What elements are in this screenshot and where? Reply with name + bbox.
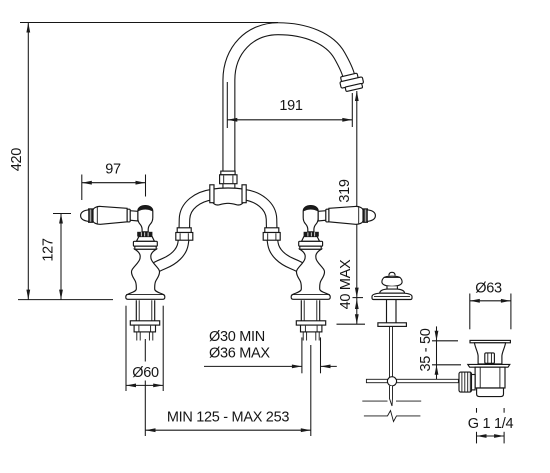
break line 2 with zigzag bbox=[364, 411, 421, 422]
dimension min-max left extension line lower bbox=[144, 381, 146, 437]
dimension 97 line bbox=[82, 182, 146, 184]
left pillar group bbox=[81, 205, 165, 340]
dimension 191 left extension line bbox=[226, 82, 228, 128]
dimension 127 bottom arrowhead bbox=[59, 290, 63, 300]
left bridge arm outer stroke bbox=[156, 195, 213, 268]
pop-up stem bbox=[387, 300, 397, 323]
dimension min-max left arrowhead bbox=[146, 428, 156, 432]
pillar skirt bbox=[137, 237, 155, 242]
central hub left rib bbox=[210, 185, 214, 203]
below-deck shank outer lines bbox=[136, 300, 154, 321]
dimension 420 top arrowhead bbox=[26, 23, 30, 33]
spout tube outer stroke bbox=[229, 29, 349, 189]
tailpiece lines bbox=[137, 332, 153, 341]
dimension diam30/36 right arrowhead pointing right bbox=[292, 365, 302, 369]
below-deck shank inner lines bbox=[139, 300, 152, 321]
pop-up skirt line bbox=[374, 295, 410, 297]
waste body inner wall lines bbox=[480, 367, 500, 388]
dimension diam63 right arrowhead bbox=[501, 299, 511, 303]
dimension 127 top arrowhead bbox=[59, 214, 63, 224]
dimension 40 MAX lower arrowhead bbox=[355, 314, 359, 324]
dimension 191 right arrowhead bbox=[342, 118, 352, 122]
dimension 97 right extension line bbox=[145, 175, 147, 197]
dimension 420 top reference line bbox=[20, 22, 278, 24]
right bridge arm inner white bbox=[244, 195, 301, 268]
dimension 191 right extension line bbox=[351, 93, 353, 127]
dimension diam30/36 leader line left part bbox=[204, 365, 302, 367]
right pillar (mirrored) bbox=[291, 205, 375, 340]
svg-text:G 1 1/4: G 1 1/4 bbox=[468, 416, 514, 432]
handle ribbed collar bbox=[89, 209, 93, 222]
dimension 40 MAX bottom reference line bbox=[337, 323, 366, 325]
pillar bonnet band bbox=[133, 241, 157, 246]
svg-text:40 MAX: 40 MAX bbox=[338, 259, 354, 309]
pillar vase body bbox=[126, 249, 165, 299]
handle grip butt line bbox=[96, 207, 98, 225]
waste body bbox=[475, 367, 505, 388]
dimension min-max line bbox=[146, 429, 311, 431]
waste bottom cap bbox=[477, 388, 504, 397]
spout tube inner white bbox=[229, 29, 349, 189]
waste top rim bbox=[470, 340, 510, 342]
dimension diam30/36 left-pointing arrowhead bbox=[321, 365, 331, 369]
handle rib lines bbox=[90, 209, 91, 222]
pillar knurled ring bbox=[137, 232, 152, 237]
rod lower tip bbox=[390, 386, 393, 406]
aerator outlet bands bbox=[339, 72, 365, 92]
dimension min-max left extension line upper bbox=[144, 339, 146, 362]
left union nut facets bbox=[180, 233, 188, 240]
waste sink band bbox=[468, 364, 510, 367]
handle stem bbox=[130, 211, 138, 221]
knurl highlights bbox=[141, 232, 148, 236]
central hub body bbox=[212, 188, 245, 205]
pop-up knob tip bbox=[389, 272, 395, 275]
dimension min-max right extension line bbox=[310, 345, 312, 436]
dimension 319 top arrowhead bbox=[355, 91, 359, 101]
dimension diam60 right extension line bbox=[162, 306, 164, 391]
spout base nut bbox=[220, 175, 237, 184]
dimension diam60 left extension line bbox=[125, 306, 127, 391]
right union nut collar bbox=[265, 228, 279, 233]
left union nut collar bbox=[177, 228, 191, 233]
waste nut collar bbox=[472, 375, 476, 390]
dimension diam63 right extension line bbox=[510, 294, 512, 330]
lever ball pivot bbox=[387, 377, 396, 386]
dimension diam30/36 right tail bbox=[321, 365, 337, 367]
dimension 97 left extension line bbox=[81, 175, 83, 201]
dimension G1-1/4 right arrowhead bbox=[494, 434, 504, 438]
dimension 127 top tick bbox=[53, 213, 71, 215]
dimension diam60 right arrowhead bbox=[153, 384, 163, 388]
pop-up rod bbox=[390, 326, 393, 377]
dimension diam63 line bbox=[470, 300, 511, 302]
spout base nut facets bbox=[224, 176, 233, 184]
left union nut body bbox=[176, 233, 193, 241]
dimension diam60 left arrowhead bbox=[126, 384, 136, 388]
handle grip cone bbox=[93, 206, 127, 224]
dimension 191 (drawn over spout) bbox=[227, 82, 352, 128]
dimension 191 left arrowhead bbox=[227, 118, 237, 122]
svg-text:Ø63: Ø63 bbox=[475, 281, 502, 297]
left bridge arm inner white bbox=[156, 195, 213, 268]
dimension 97 right arrowhead bbox=[136, 181, 146, 185]
svg-text:127: 127 bbox=[41, 238, 57, 262]
waste trumpet bbox=[474, 343, 505, 364]
waste side nut ridges bbox=[462, 372, 470, 392]
dimension 35-50 vertical line bbox=[436, 326, 438, 381]
dimension 319 bottom arrowhead bbox=[355, 288, 359, 298]
thread right extension line upper bbox=[503, 408, 505, 413]
dimension 420 vertical line bbox=[27, 23, 29, 300]
right union nut facets bbox=[268, 233, 276, 240]
mounting nut facets bbox=[139, 326, 151, 332]
mounting nut bbox=[134, 325, 155, 332]
spout collar bbox=[221, 171, 235, 175]
dimension diam63 left extension line bbox=[469, 294, 471, 330]
break line 1 bbox=[362, 400, 421, 402]
dimension 40 MAX upper arrowhead bbox=[355, 299, 359, 309]
svg-text:Ø36 MAX: Ø36 MAX bbox=[209, 346, 270, 362]
hole right extension line bbox=[320, 337, 322, 373]
lever horizontal rod bbox=[366, 379, 458, 382]
dimension 420 bottom arrowhead bbox=[26, 290, 30, 300]
dimension 35-50 lower arrowhead pointing up bbox=[435, 365, 439, 375]
handle tip dome bbox=[81, 210, 89, 222]
dimension 319 vertical line bbox=[356, 91, 358, 298]
dimension 319 deck tick bbox=[353, 297, 364, 299]
svg-text:35 - 50: 35 - 50 bbox=[418, 328, 434, 371]
pop-up knob bulb bbox=[382, 276, 402, 286]
thread right extension line lower bbox=[503, 432, 505, 444]
waste slot lines bbox=[488, 353, 492, 363]
dimension 35-50 lower tick bbox=[432, 364, 461, 366]
waste slot tab bbox=[485, 353, 495, 363]
pillar bonnet lip bbox=[135, 246, 156, 249]
pillar ball and neck bbox=[138, 206, 153, 232]
dimension min-max right arrowhead bbox=[301, 428, 311, 432]
dimension diam60 line bbox=[126, 384, 163, 386]
hole left extension line bbox=[301, 337, 303, 373]
pop-up rod collar bbox=[378, 323, 407, 327]
pillar base lip line bbox=[126, 294, 164, 296]
dimension diam63 left arrowhead bbox=[470, 299, 480, 303]
central hub right rib bbox=[242, 185, 246, 203]
dimension 97 left arrowhead bbox=[82, 181, 92, 185]
pop-up skirt upper bbox=[380, 289, 405, 293]
waste side nut bbox=[459, 372, 472, 392]
thread left extension line upper bbox=[476, 408, 478, 413]
svg-text:MIN 125 - MAX 253: MIN 125 - MAX 253 bbox=[167, 410, 289, 426]
dimension G1-1/4 left arrowhead bbox=[477, 434, 487, 438]
dimension 191 line bbox=[227, 119, 352, 121]
svg-text:Ø30 MIN: Ø30 MIN bbox=[209, 329, 265, 345]
pop-up knob waist bbox=[387, 286, 397, 289]
dimension 127 vertical line bbox=[60, 214, 62, 300]
right bridge arm outer stroke bbox=[244, 195, 301, 268]
dimension G1-1/4 line bbox=[477, 435, 505, 437]
right union nut body bbox=[263, 233, 280, 241]
dimension 40 MAX vertical line bbox=[356, 298, 358, 325]
pop-up knob shoulder line bbox=[384, 277, 400, 279]
dimension 35-50 upper tick bbox=[432, 340, 458, 342]
dimension 35-50 upper arrowhead pointing down bbox=[435, 331, 439, 341]
svg-text:97: 97 bbox=[105, 162, 121, 178]
svg-text:319: 319 bbox=[337, 179, 353, 203]
svg-text:191: 191 bbox=[279, 98, 303, 114]
ball top cap dark bbox=[138, 205, 152, 211]
thread left extension line lower bbox=[476, 432, 478, 444]
handle stem collar bbox=[127, 209, 130, 222]
deck/counter line bbox=[18, 299, 113, 301]
pop-up skirt lower bbox=[372, 293, 412, 299]
washer bbox=[130, 321, 159, 325]
svg-text:Ø60: Ø60 bbox=[132, 365, 159, 381]
svg-text:420: 420 bbox=[9, 148, 25, 172]
